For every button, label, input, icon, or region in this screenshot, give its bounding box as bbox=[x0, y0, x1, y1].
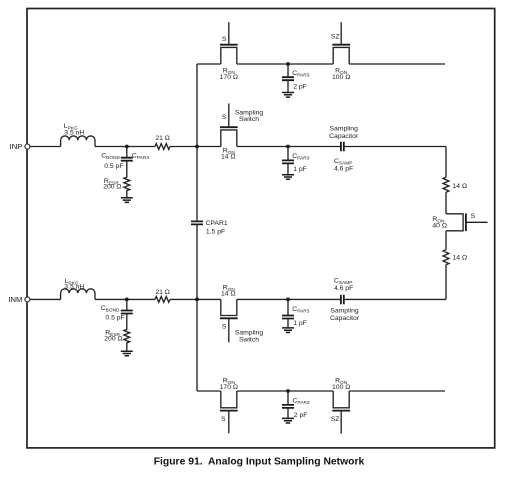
wire CSAMP to right branch (INM) bbox=[344, 298, 446, 300]
node junction CPAR3 (INP) bbox=[286, 145, 290, 149]
node junction bus INP bbox=[195, 145, 199, 149]
ground (bottom CPAR3) bbox=[282, 418, 294, 423]
capacitor CBOND 0.5 pF (INM) bbox=[101, 299, 133, 321]
transistor sampling switch S / RON 14 ohm (INP) bbox=[220, 104, 263, 161]
svg-text:2 pF: 2 pF bbox=[293, 84, 307, 91]
node junction CBOND (INM) bbox=[125, 298, 129, 302]
svg-text:21 Ω: 21 Ω bbox=[155, 289, 170, 296]
wire top row left bbox=[197, 63, 221, 65]
svg-text:Figure 91. Analog Input Sampl: Figure 91. Analog Input Sampling Network bbox=[154, 456, 365, 467]
ground (RESR INM) bbox=[121, 351, 133, 356]
svg-text:4.6 pF: 4.6 pF bbox=[334, 165, 353, 172]
svg-text:170 Ω: 170 Ω bbox=[220, 384, 238, 391]
resistor RESR 200 ohm (INP) bbox=[103, 161, 130, 198]
svg-text:CPAR1: CPAR1 bbox=[206, 220, 228, 227]
wire 21 ohm to bus (INM) bbox=[170, 298, 221, 300]
svg-text:21 Ω: 21 Ω bbox=[155, 135, 170, 142]
svg-text:40 Ω: 40 Ω bbox=[432, 222, 447, 229]
svg-text:14 Ω: 14 Ω bbox=[453, 183, 468, 190]
wire junction to CSAMP (INM) bbox=[288, 298, 341, 300]
wire bottom row mid-left bbox=[237, 390, 288, 392]
svg-text:1 pF: 1 pF bbox=[293, 320, 307, 327]
svg-text:INM: INM bbox=[8, 295, 22, 304]
resistor RESR 200 ohm (INM) bbox=[104, 314, 129, 352]
svg-text:3.5 nH: 3.5 nH bbox=[64, 129, 84, 136]
wire bottom row right stub bbox=[349, 390, 445, 392]
ground (CPAR3 INP) bbox=[282, 175, 294, 180]
svg-text:Switch: Switch bbox=[239, 337, 259, 344]
svg-text:S: S bbox=[221, 416, 226, 423]
svg-text:Switch: Switch bbox=[239, 116, 259, 123]
wire bottom row left bbox=[197, 390, 221, 392]
node junction CPAR3 (INM) bbox=[286, 298, 290, 302]
svg-text:14 Ω: 14 Ω bbox=[221, 291, 236, 298]
transistor switch S / RON 170 ohm (top left) bbox=[220, 22, 238, 81]
svg-text:Sampling: Sampling bbox=[235, 330, 264, 337]
wire 21 ohm to bus (INP) bbox=[170, 146, 221, 148]
wire 40 ohm switch to lower 14 ohm bbox=[445, 231, 447, 250]
svg-text:Capacitor: Capacitor bbox=[329, 133, 359, 140]
svg-text:100 Ω: 100 Ω bbox=[332, 74, 350, 81]
svg-text:0.5 pF: 0.5 pF bbox=[104, 163, 123, 170]
svg-text:Capacitor: Capacitor bbox=[330, 315, 360, 322]
wire switch to CPAR3 junction (INP) bbox=[237, 146, 288, 148]
svg-text:S: S bbox=[222, 36, 227, 43]
wire right branch upper (corner to 14 ohm) bbox=[445, 147, 447, 178]
resistor 21 ohm (INP) bbox=[155, 135, 170, 150]
svg-text:200 Ω: 200 Ω bbox=[104, 336, 122, 343]
node INM bbox=[8, 295, 30, 304]
resistor 14 ohm (upper right) bbox=[443, 177, 467, 192]
node junction CBOND (INP) bbox=[125, 145, 129, 149]
transistor switch SZ / RON 100 ohm (bottom right) bbox=[331, 378, 351, 434]
capacitor CPAR3 1 pF (INP) bbox=[282, 147, 310, 175]
node junction bottom bbox=[286, 389, 290, 393]
svg-text:4.6 pF: 4.6 pF bbox=[334, 285, 353, 292]
transistor switch S / RON 40 ohm (right) bbox=[432, 213, 487, 231]
ground (top CPAR3) bbox=[282, 93, 294, 98]
wire switch to CPAR3 junction (INM) bbox=[237, 298, 288, 300]
svg-text:1 pF: 1 pF bbox=[293, 166, 307, 173]
ground (RESR INP) bbox=[121, 198, 133, 203]
node junction top bbox=[286, 62, 290, 66]
capacitor CBOND / CPAR3 0.5 pF (INP) bbox=[101, 147, 149, 170]
resistor 21 ohm (INM) bbox=[155, 289, 170, 302]
svg-text:3.5 nH: 3.5 nH bbox=[64, 284, 84, 291]
svg-text:14 Ω: 14 Ω bbox=[221, 153, 236, 160]
transistor sampling switch S / RON 14 ohm (INM) bbox=[220, 285, 263, 344]
svg-text:14 Ω: 14 Ω bbox=[453, 255, 468, 262]
svg-text:Sampling: Sampling bbox=[330, 125, 359, 132]
wire bus lower (CPAR1 to bottom row) bbox=[196, 224, 198, 391]
wire inductor to 21 ohm (INM) bbox=[95, 298, 155, 300]
svg-text:S: S bbox=[471, 213, 476, 220]
wire inductor to 21 ohm (INP) bbox=[95, 146, 155, 148]
wire top row mid-right bbox=[288, 63, 333, 65]
node INP bbox=[10, 142, 30, 151]
wire top row mid-left bbox=[237, 63, 288, 65]
svg-text:1.5 pF: 1.5 pF bbox=[206, 229, 225, 236]
wire 14 ohm to 40 ohm switch bbox=[445, 192, 447, 214]
wire bottom row mid-right bbox=[288, 390, 333, 392]
capacitor CPAR3 2 pF (bottom) bbox=[282, 391, 310, 419]
svg-text:200 Ω: 200 Ω bbox=[103, 184, 121, 191]
svg-text:100 Ω: 100 Ω bbox=[332, 384, 350, 391]
svg-text:SZ: SZ bbox=[331, 34, 340, 41]
svg-text:S: S bbox=[222, 114, 227, 121]
capacitor CPAR3 2 pF (top) bbox=[282, 64, 310, 93]
svg-text:0.5 pF: 0.5 pF bbox=[105, 314, 124, 321]
wire top row right stub bbox=[349, 63, 445, 65]
wire bus upper (x=197, top row to CPAR1) bbox=[196, 64, 198, 221]
svg-text:SZ: SZ bbox=[331, 416, 340, 423]
capacitor CSAMP 4.6 pF sampling capacitor (INM) bbox=[330, 278, 360, 322]
wire CSAMP to right branch (INP) bbox=[344, 146, 446, 148]
node junction bus INM bbox=[195, 298, 199, 302]
svg-text:2 pF: 2 pF bbox=[294, 412, 308, 419]
wire right branch lower (14 ohm to INM corner) bbox=[445, 265, 447, 300]
svg-text:INP: INP bbox=[10, 142, 23, 151]
svg-text:170 Ω: 170 Ω bbox=[220, 74, 238, 81]
ground (CPAR3 INM) bbox=[282, 328, 294, 333]
capacitor CPAR1 1.5 pF (mid bus) bbox=[191, 220, 228, 235]
inductor LPKG 3.5 nH (INM) bbox=[61, 278, 95, 300]
inductor LPKG 3.5 nH (INP) bbox=[61, 123, 95, 147]
svg-text:S: S bbox=[222, 324, 227, 331]
capacitor CPAR3 1 pF (INM) bbox=[282, 299, 310, 328]
transistor switch S / RON 170 ohm (bottom left) bbox=[220, 378, 238, 434]
capacitor CSAMP 4.6 pF sampling capacitor (INP) bbox=[329, 125, 359, 172]
resistor 14 ohm (lower right) bbox=[443, 250, 467, 265]
wire INP to inductor bbox=[30, 146, 61, 148]
wire INM to inductor bbox=[30, 298, 61, 300]
svg-text:Sampling: Sampling bbox=[330, 308, 359, 315]
wire junction to CSAMP (INP) bbox=[288, 146, 341, 148]
transistor switch SZ / RON 100 ohm (top right) bbox=[331, 22, 350, 81]
